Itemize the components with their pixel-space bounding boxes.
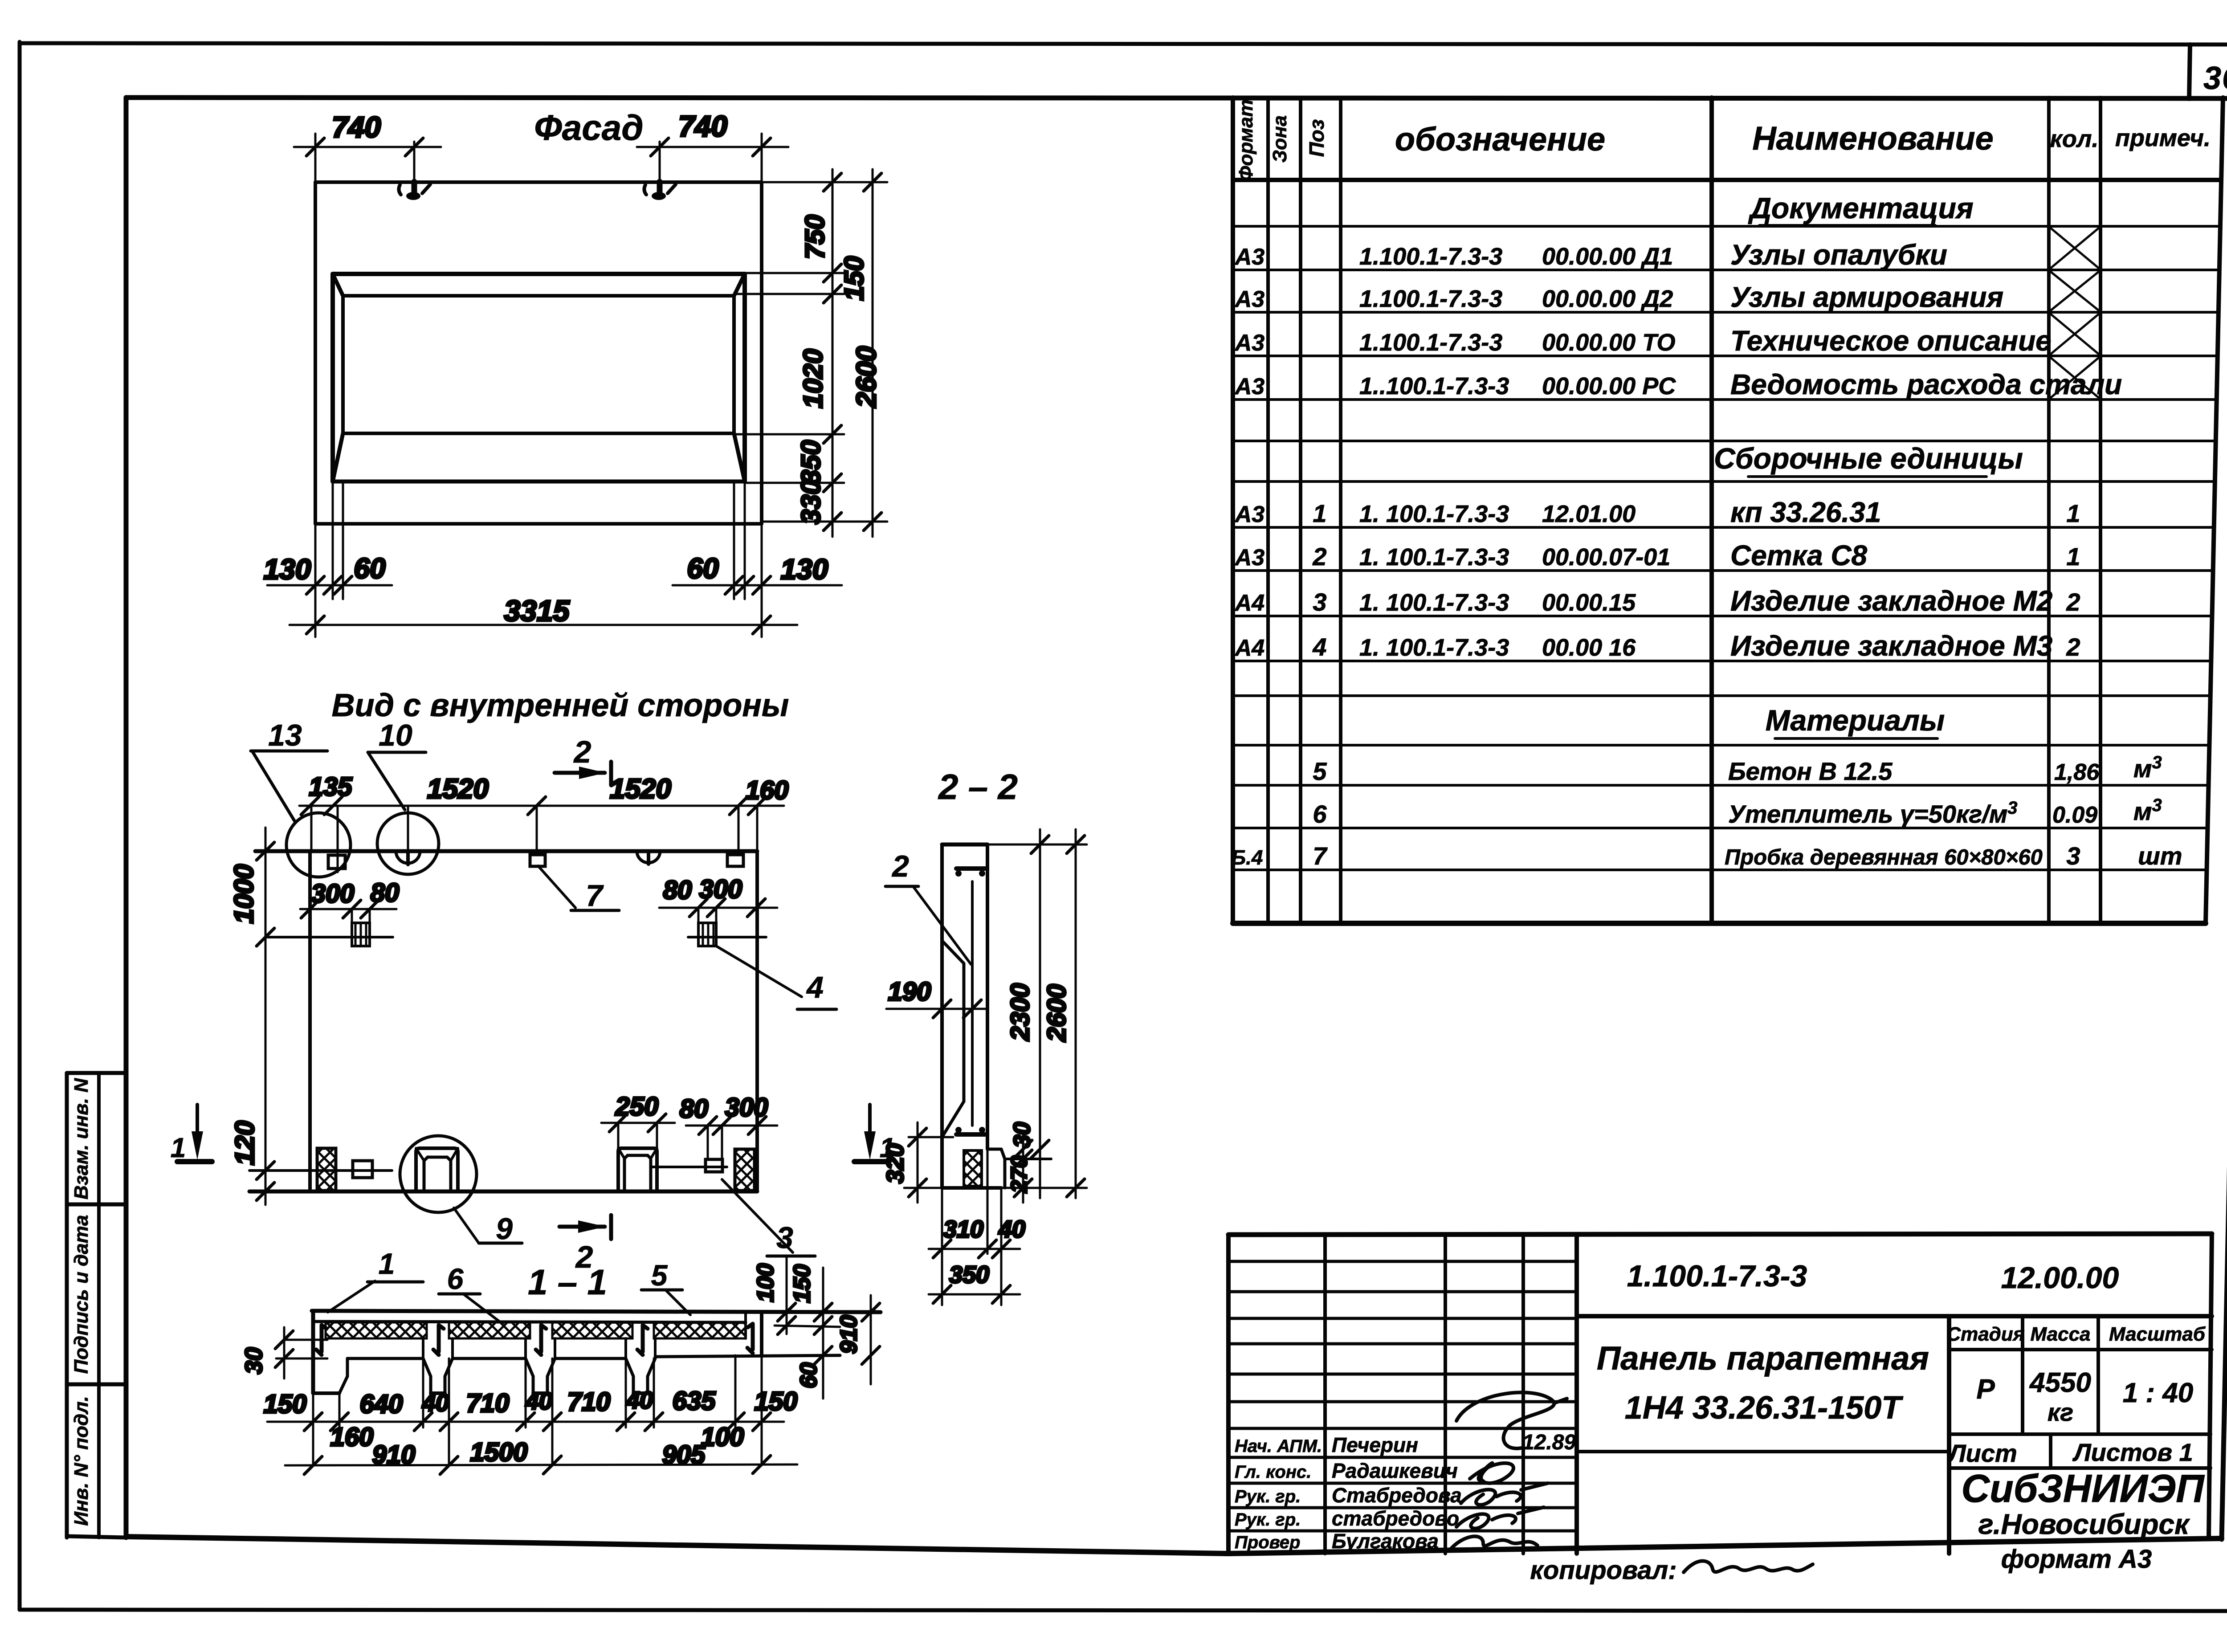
svg-text:3: 3 [776, 1221, 793, 1255]
svg-text:Утеплитель γ=50кг/м3: Утеплитель γ=50кг/м3 [1728, 798, 2018, 828]
svg-text:м3: м3 [2133, 753, 2162, 783]
svg-text:Вид с внутренней стороны: Вид с внутренней стороны [332, 688, 789, 723]
svg-text:А4: А4 [1234, 590, 1265, 616]
svg-text:60: 60 [354, 552, 385, 584]
inner view panel outline [249, 851, 757, 1191]
svg-text:00.00.07-01: 00.00.07-01 [1542, 544, 1670, 571]
svg-text:36: 36 [2203, 61, 2227, 96]
section mark 1 left [171, 1105, 212, 1163]
svg-text:1. 100.1-7.3-3: 1. 100.1-7.3-3 [1359, 634, 1509, 661]
section mark 2 bottom [559, 1215, 611, 1274]
svg-text:Панель парапетная: Панель парапетная [1597, 1340, 1929, 1377]
inner view top dim chain 135 1520 1520 160 [299, 772, 788, 872]
facade panel outline [315, 182, 762, 524]
left vertical stamp block [67, 1073, 126, 1538]
facade recess outer edge [333, 274, 745, 481]
svg-text:40: 40 [525, 1388, 552, 1415]
svg-text:обозначение: обозначение [1395, 121, 1605, 158]
svg-text:А3: А3 [1234, 374, 1265, 400]
inner dim 1000 and 120 [229, 828, 274, 1205]
spec section header Dokumentaciya [1748, 192, 1974, 225]
svg-text:Инв. N° подл.: Инв. N° подл. [70, 1396, 92, 1526]
section 2-2 dim 2600 [1042, 829, 1085, 1198]
section 1-1 dim 30 left [241, 1327, 327, 1379]
bottom hatched anchor left [317, 1148, 336, 1191]
svg-text:1 : 40: 1 : 40 [2123, 1378, 2194, 1408]
facade bottom extension lines [315, 481, 762, 637]
svg-text:300: 300 [311, 879, 355, 908]
svg-text:10: 10 [379, 718, 412, 752]
svg-text:Подпись и дата: Подпись и дата [70, 1215, 92, 1374]
facade recess corner bevels [333, 274, 745, 481]
svg-text:7: 7 [586, 879, 604, 913]
svg-text:Материалы: Материалы [1766, 704, 1945, 737]
svg-text:1 – 1: 1 – 1 [528, 1262, 607, 1302]
svg-text:12.01.00: 12.01.00 [1542, 501, 1636, 527]
anchor loop right (hatched) [688, 923, 766, 946]
title block signature rows [1235, 1431, 1576, 1553]
svg-text:А3: А3 [1234, 330, 1265, 356]
svg-text:2600: 2600 [1042, 984, 1071, 1042]
svg-text:2: 2 [573, 734, 591, 769]
svg-text:Поз: Поз [1305, 119, 1328, 157]
lifting loop right [637, 851, 660, 864]
svg-text:А3: А3 [1234, 244, 1265, 270]
leader 2 [885, 849, 971, 964]
facade lifting loop left [399, 182, 430, 200]
svg-text:740: 740 [332, 110, 381, 143]
title block left table grid [1228, 1235, 1577, 1554]
svg-text:640: 640 [360, 1390, 403, 1419]
svg-text:Масса: Масса [2030, 1323, 2090, 1345]
facade dim 740 right [637, 110, 788, 182]
title block doc number row [1577, 1259, 2212, 1316]
svg-text:1: 1 [2066, 499, 2080, 527]
facade right dim chain extension lines [734, 182, 887, 522]
svg-text:Сетка С8: Сетка С8 [1730, 539, 1868, 571]
svg-text:300: 300 [725, 1093, 768, 1122]
facade lifting loop right [644, 182, 676, 200]
spec row Probka derevyannaya [1232, 842, 2182, 870]
svg-text:130: 130 [781, 553, 828, 585]
svg-text:710: 710 [567, 1387, 611, 1416]
svg-text:1.100.1-7.3-3: 1.100.1-7.3-3 [1359, 243, 1502, 270]
svg-text:Изделие закладное М3: Изделие закладное М3 [1730, 630, 2052, 662]
facade dim 130 60 left [264, 552, 392, 594]
svg-text:750: 750 [800, 215, 830, 259]
svg-text:300: 300 [699, 875, 742, 904]
spec row Узлы армирования [1234, 272, 2099, 313]
section 2-2 rebar [971, 881, 974, 1126]
spec section header Sborochnye edinicy [1714, 442, 2023, 477]
svg-text:г.Новосибирск: г.Новосибирск [1978, 1508, 2190, 1540]
section 2-2 bottom anchor [955, 1127, 985, 1134]
svg-text:13: 13 [268, 718, 302, 752]
bottom small plate right [651, 1159, 727, 1172]
leader 6 section [439, 1262, 502, 1324]
spec row Изделие закладное М2 [1234, 585, 2080, 617]
svg-text:2300: 2300 [1006, 983, 1035, 1041]
facade recess inner edge [343, 296, 734, 433]
svg-text:1. 100.1-7.3-3: 1. 100.1-7.3-3 [1359, 501, 1509, 527]
section 2-2 body outline [942, 844, 1001, 1188]
svg-text:Техническое описание: Техническое описание [1730, 325, 2052, 357]
bottom hatched anchor right [735, 1149, 755, 1191]
svg-text:Формат: Формат [1235, 99, 1257, 181]
leader 7 [538, 866, 619, 913]
svg-text:Булгакова: Булгакова [1332, 1530, 1439, 1553]
svg-text:4550: 4550 [2029, 1367, 2091, 1398]
svg-text:6: 6 [447, 1262, 464, 1295]
svg-text:примеч.: примеч. [2115, 125, 2211, 151]
svg-text:3: 3 [2066, 842, 2080, 870]
svg-text:12.00.00: 12.00.00 [2001, 1261, 2119, 1295]
beveled opening mid (250) [618, 1148, 657, 1191]
svg-text:5: 5 [1313, 757, 1327, 785]
facade dim 3315 [290, 594, 797, 634]
svg-text:3: 3 [1313, 588, 1326, 616]
svg-text:330: 330 [796, 480, 826, 524]
svg-text:30: 30 [1009, 1122, 1035, 1148]
svg-text:1: 1 [2066, 543, 2080, 571]
embedded plate top right [727, 855, 743, 866]
svg-text:1: 1 [1313, 499, 1326, 527]
svg-text:4: 4 [806, 971, 824, 1004]
svg-text:150: 150 [755, 1387, 798, 1416]
spec row Узлы опалубки [1234, 228, 2099, 271]
svg-text:Стабредова: Стабредова [1332, 1484, 1462, 1507]
svg-text:Фасад: Фасад [534, 108, 643, 147]
svg-text:6: 6 [1313, 800, 1327, 828]
svg-text:80: 80 [663, 876, 692, 905]
svg-text:Бетон В 12.5: Бетон В 12.5 [1728, 757, 1893, 785]
section 2-2 recess profile [942, 941, 964, 1137]
section mark 2 top [555, 734, 611, 785]
svg-text:320: 320 [882, 1143, 909, 1183]
svg-text:2600: 2600 [851, 346, 882, 408]
svg-text:1.100.1-7.3-3: 1.100.1-7.3-3 [1627, 1259, 1807, 1293]
svg-text:2: 2 [1312, 543, 1326, 571]
svg-text:5: 5 [651, 1259, 668, 1292]
svg-text:1.100.1-7.3-3: 1.100.1-7.3-3 [1359, 286, 1502, 312]
leader 4 [716, 946, 836, 1009]
svg-text:Наименование: Наименование [1752, 120, 1994, 157]
section 1-1 bottom dim chain row1 [264, 1355, 798, 1465]
svg-text:00.00.15: 00.00.15 [1542, 589, 1636, 616]
svg-text:Радашкевич: Радашкевич [1332, 1459, 1458, 1482]
svg-text:Провер: Провер [1235, 1533, 1300, 1552]
svg-text:1: 1 [171, 1133, 186, 1163]
spec row Beton B 12.5 [1313, 753, 2162, 785]
facade dim 60 130 right [673, 552, 842, 594]
spec row Ведомость расхода стали [1234, 358, 2122, 400]
leader 1 section [328, 1247, 423, 1312]
svg-text:1Н4 33.26.31-150Т: 1Н4 33.26.31-150Т [1625, 1390, 1904, 1426]
svg-text:100: 100 [753, 1264, 779, 1302]
svg-text:Зона: Зона [1269, 115, 1291, 163]
svg-text:7: 7 [1313, 842, 1328, 870]
svg-text:Нач. АПМ.: Нач. АПМ. [1235, 1436, 1322, 1456]
embedded plate in circle 13 [328, 855, 345, 869]
leader 3 [722, 1179, 815, 1256]
svg-text:905: 905 [662, 1440, 706, 1469]
svg-text:00.00.00 Д2: 00.00.00 Д2 [1542, 286, 1673, 312]
title block outline [1228, 1234, 2212, 1554]
svg-text:Рук. гр.: Рук. гр. [1235, 1487, 1301, 1506]
svg-text:80: 80 [680, 1094, 709, 1123]
svg-text:формат А3: формат А3 [2001, 1545, 2152, 1574]
svg-text:00.00 16: 00.00 16 [1542, 634, 1636, 661]
facade dim 740 left [294, 110, 441, 182]
svg-text:350: 350 [796, 440, 826, 485]
svg-text:12.89: 12.89 [1522, 1431, 1576, 1454]
svg-text:кг: кг [2048, 1398, 2073, 1426]
svg-text:Листов 1: Листов 1 [2072, 1438, 2193, 1466]
title block organization [1961, 1466, 2205, 1540]
svg-text:м3: м3 [2133, 795, 2162, 825]
svg-text:100: 100 [701, 1423, 744, 1452]
svg-text:Печерин: Печерин [1332, 1433, 1418, 1456]
section 2-2 dims 30 270 [1007, 1122, 1035, 1203]
svg-text:Лист: Лист [1947, 1439, 2017, 1467]
svg-text:250: 250 [615, 1092, 659, 1121]
svg-text:СибЗНИИЭП: СибЗНИИЭП [1961, 1466, 2205, 1510]
spec row Изделие закладное М3 [1234, 630, 2080, 662]
section 2-2 bottom dims 310 40 350 [929, 1149, 1025, 1305]
svg-text:копировал:: копировал: [1530, 1556, 1676, 1585]
kopiroval note [1530, 1556, 1813, 1585]
section 2-2 dim 320 left [882, 1122, 953, 1203]
svg-text:кп 33.26.31: кп 33.26.31 [1730, 496, 1881, 528]
spec row кп 33.26.31 [1234, 496, 2080, 528]
svg-text:Документация: Документация [1748, 192, 1974, 224]
svg-text:2: 2 [891, 849, 909, 883]
section mark 1 right [854, 1105, 895, 1163]
svg-text:1000: 1000 [229, 864, 259, 923]
svg-text:910: 910 [372, 1440, 416, 1469]
svg-text:Пробка деревянная 60×80×60: Пробка деревянная 60×80×60 [1725, 845, 2043, 869]
svg-text:1,86: 1,86 [2054, 759, 2100, 785]
svg-text:кол.: кол. [2050, 126, 2099, 152]
svg-text:Изделие закладное М2: Изделие закладное М2 [1730, 585, 2052, 617]
svg-text:1.100.1-7.3-3: 1.100.1-7.3-3 [1359, 329, 1502, 356]
dim 250 [601, 1092, 675, 1148]
svg-text:350: 350 [949, 1261, 989, 1288]
svg-text:1520: 1520 [610, 774, 671, 804]
callout circle 13 [251, 718, 351, 877]
section 1-1 bottom dim chain row2 [285, 1423, 797, 1474]
spec section header Materialy [1766, 704, 1945, 738]
title block name box [1577, 1316, 1949, 1554]
svg-text:160: 160 [746, 776, 789, 805]
callout circle 10 [368, 718, 439, 874]
svg-text:740: 740 [678, 110, 727, 143]
svg-text:А3: А3 [1234, 545, 1265, 571]
svg-text:310: 310 [943, 1216, 983, 1243]
svg-text:00.00.00 РС: 00.00.00 РС [1542, 373, 1676, 400]
section 2-2 dim 190 [886, 977, 987, 1018]
svg-text:130: 130 [264, 553, 311, 585]
svg-text:710: 710 [466, 1389, 510, 1418]
svg-text:Сборочные единицы: Сборочные единицы [1714, 442, 2023, 475]
svg-text:стабредово: стабредово [1332, 1507, 1459, 1530]
svg-text:2: 2 [2066, 633, 2080, 661]
facade dim chain 750 150 1020 350 330 [796, 169, 869, 537]
svg-text:40: 40 [422, 1390, 449, 1416]
svg-text:1520: 1520 [427, 774, 489, 804]
inner dim 80 300 right [659, 875, 777, 923]
spec row Сетка С8 [1234, 539, 2080, 571]
svg-text:190: 190 [888, 977, 931, 1006]
svg-text:А3: А3 [1234, 502, 1265, 527]
section 1-1 body outline [313, 1311, 840, 1393]
bottom small plate left [249, 1161, 392, 1178]
section 1-1 right vertical dims 100 150 60 910 [753, 1257, 880, 1399]
section 2-2 top anchor [955, 869, 985, 877]
embedded plate pos 7 [530, 855, 545, 866]
title block list row [1947, 1434, 2211, 1468]
signature scribbles [1450, 1392, 1567, 1550]
svg-text:шт: шт [2138, 842, 2182, 870]
svg-text:Узлы опалубки: Узлы опалубки [1730, 239, 1947, 271]
section 2-2 bottom hatch [964, 1150, 982, 1186]
svg-text:80: 80 [371, 878, 400, 907]
spec row Техническое описание [1234, 314, 2099, 357]
svg-text:Гл. конс.: Гл. конс. [1235, 1462, 1311, 1482]
svg-text:Стадия: Стадия [1946, 1323, 2024, 1345]
svg-text:Масштаб: Масштаб [2109, 1323, 2206, 1345]
sheet page number box [2189, 45, 2190, 99]
svg-text:150: 150 [264, 1390, 307, 1419]
svg-text:1. 100.1-7.3-3: 1. 100.1-7.3-3 [1359, 544, 1509, 571]
svg-text:150: 150 [789, 1264, 815, 1303]
title block stadiya massa masshtab [1946, 1316, 2212, 1434]
svg-text:40: 40 [626, 1387, 653, 1414]
section 2-2 bottom step [987, 1149, 1051, 1188]
svg-text:А3: А3 [1234, 286, 1265, 312]
svg-text:4: 4 [1312, 633, 1326, 661]
svg-text:2: 2 [2066, 588, 2080, 616]
svg-text:3315: 3315 [504, 594, 570, 627]
svg-text:1020: 1020 [798, 349, 828, 408]
svg-text:Рук. гр.: Рук. гр. [1235, 1510, 1301, 1530]
svg-text:00.00.00 ТО: 00.00.00 ТО [1542, 329, 1675, 356]
svg-text:1. 100.1-7.3-3: 1. 100.1-7.3-3 [1359, 589, 1509, 616]
svg-text:1..100.1-7.3-3: 1..100.1-7.3-3 [1359, 373, 1509, 400]
dim 80 300 bottom right [680, 1093, 777, 1159]
anchor loop left (hatched) [266, 923, 393, 946]
section 1-1 insulation hatch band [326, 1322, 746, 1338]
svg-text:60: 60 [796, 1362, 822, 1388]
svg-text:Б.4: Б.4 [1232, 846, 1263, 869]
section 1-1 anchor hooks [316, 1324, 753, 1355]
svg-text:1: 1 [379, 1247, 395, 1280]
spec table header labels [1235, 99, 2211, 181]
svg-text:120: 120 [230, 1121, 260, 1165]
specification table grid [1233, 98, 2223, 923]
leader 9 [454, 1208, 522, 1246]
svg-text:30: 30 [241, 1347, 267, 1374]
svg-text:Ведомость расхода стали: Ведомость расхода стали [1730, 368, 2122, 400]
facade dim 2600 [851, 169, 882, 537]
svg-text:Р: Р [1976, 1374, 1995, 1405]
svg-text:А4: А4 [1234, 635, 1265, 661]
svg-text:635: 635 [673, 1387, 716, 1415]
svg-text:9: 9 [496, 1212, 513, 1246]
callout circle 9 with beveled opening [400, 1136, 477, 1212]
leader 5 section [641, 1259, 690, 1315]
svg-text:150: 150 [839, 256, 869, 301]
lifting loop in circle 10 [396, 851, 420, 865]
svg-text:60: 60 [687, 552, 718, 584]
inner dim 300 80 left [300, 878, 399, 924]
svg-text:00.00.00 Д1: 00.00.00 Д1 [1542, 243, 1673, 270]
section 1-1 slab top [312, 1311, 881, 1322]
svg-text:40: 40 [998, 1216, 1025, 1243]
svg-text:Узлы армирования: Узлы армирования [1730, 281, 2003, 313]
spec row Uteplitel [1313, 795, 2162, 828]
svg-text:135: 135 [309, 772, 353, 801]
section 2-2 dim 2300 [987, 829, 1087, 1198]
svg-text:0.09: 0.09 [2052, 802, 2097, 828]
svg-text:910: 910 [836, 1315, 862, 1354]
svg-text:1500: 1500 [470, 1438, 527, 1467]
svg-text:2 – 2: 2 – 2 [938, 767, 1018, 807]
svg-text:Взам. инв. N: Взам. инв. N [70, 1078, 92, 1199]
svg-text:160: 160 [330, 1423, 374, 1452]
